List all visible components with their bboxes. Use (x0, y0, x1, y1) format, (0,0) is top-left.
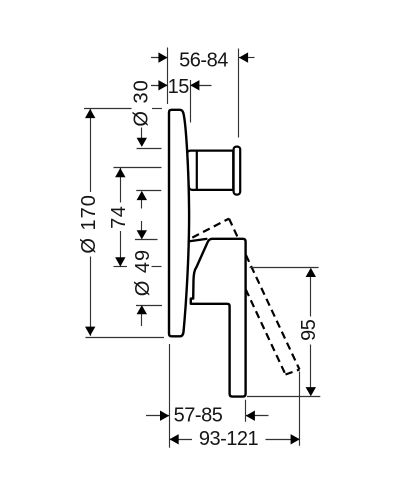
57-85 left arrow (160, 411, 169, 421)
74 top arrow (115, 168, 125, 177)
dashed lever bar right edge (246, 255, 300, 370)
Ø30 top arrow (points down) (137, 138, 147, 147)
Ø49 top extension (135, 239, 158, 241)
escutcheon plate (side view) (169, 110, 189, 336)
Ø170 dim line verticals (90, 109, 92, 192)
svg-text:93-121: 93-121 (199, 428, 259, 450)
svg-text:74: 74 (108, 206, 130, 229)
Ø30 bottom extension (136, 190, 161, 192)
svg-text:56-84: 56-84 (179, 49, 228, 71)
95 top extension (250, 267, 319, 269)
93-121 dim line segments (170, 439, 192, 441)
svg-text:Ø 49: Ø 49 (132, 249, 154, 296)
93-121 right arrow (291, 434, 300, 444)
Ø170 top extension (gap under Ø30 text) (84, 108, 132, 110)
93-121 left arrow (170, 434, 179, 444)
Ø49 lower tail (141, 314, 143, 326)
15 left arrow (158, 80, 167, 90)
57-85 arrow tails (146, 415, 169, 417)
ext line top-right (56-84) (238, 49, 240, 138)
Ø30 bottom arrow (points up) (137, 191, 147, 200)
spout connector piece (187, 151, 197, 190)
svg-text:57-85: 57-85 (174, 404, 223, 426)
15 right arrow (190, 80, 199, 90)
svg-text:95: 95 (298, 319, 320, 341)
ext line top-left shared (56-84 / 15) (167, 48, 169, 105)
cone-plate joint line (189, 239, 207, 242)
Ø49 bottom extension (136, 305, 162, 307)
95 bottom extension (247, 396, 320, 398)
15 arrow tails (151, 85, 168, 87)
Ø30 upper tail (141, 128, 143, 139)
95 dim line verticals (310, 277, 312, 317)
Ø30 lower tail (141, 200, 143, 209)
Ø170 top arrow (85, 109, 95, 118)
95 top arrow (306, 268, 316, 277)
dashed lever raised: end edge to cone (229, 219, 239, 239)
svg-text:Ø 30: Ø 30 (130, 79, 152, 126)
74 bottom arrow (115, 257, 125, 266)
ext line bottom-left shared (169, 344, 171, 448)
dashed lever bar end cap (286, 370, 300, 375)
spout cylinder (197, 151, 233, 190)
57-85 right arrow (246, 411, 255, 421)
dashed lever bar left edge (246, 289, 286, 374)
74 bottom extension (gap behind 49 text) (114, 266, 128, 268)
Ø170 bottom arrow (85, 327, 95, 336)
57-85 right extension (245, 400, 247, 422)
56-84 arrow tails (151, 57, 168, 59)
95 bottom arrow (306, 387, 316, 396)
56-84 right arrow (239, 52, 248, 62)
Ø170 bottom extension (86, 337, 165, 339)
ext line right bottom (93-121) (299, 372, 301, 446)
ext line 15 right (190, 80, 192, 123)
svg-text:Ø 170: Ø 170 (78, 194, 100, 253)
spout end cap (234, 147, 241, 195)
Ø49 top arrow (points down) (137, 230, 147, 239)
Ø49 upper tail (141, 221, 143, 230)
74 dim line verticals (120, 168, 122, 203)
handle cone + lever body (191, 239, 246, 397)
svg-text:15: 15 (168, 76, 190, 98)
74 top extension (114, 167, 162, 169)
Ø49 bottom arrow (points up) (137, 305, 147, 314)
56-84 left arrow (158, 52, 167, 62)
dashed lever raised position: upper edge (192, 219, 229, 238)
Ø30 top extension (137, 148, 162, 150)
